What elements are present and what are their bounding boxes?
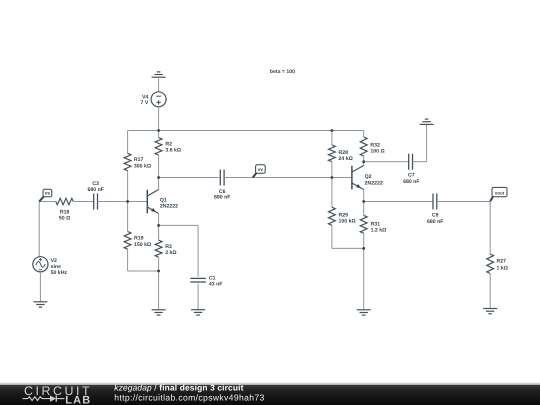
svg-text:680 nF: 680 nF [87,187,103,193]
svg-text:C7: C7 [408,173,415,179]
svg-text:R27: R27 [497,259,507,265]
svg-text:vv: vv [258,168,264,173]
svg-text:680 nF: 680 nF [427,219,443,225]
svg-text:R19: R19 [134,236,144,242]
svg-text:C9: C9 [432,213,439,219]
svg-text:2N2222: 2N2222 [160,203,178,209]
svg-text:3.6 kΩ: 3.6 kΩ [165,148,181,154]
svg-text:100 kΩ: 100 kΩ [339,219,356,225]
svg-text:R17: R17 [134,157,144,163]
svg-text:beta = 100: beta = 100 [270,69,295,75]
svg-text:V2: V2 [51,258,57,264]
svg-text:300 kΩ: 300 kΩ [134,164,151,170]
svg-text:2N2222: 2N2222 [365,180,383,186]
svg-text:kzegadap / final design 3 circ: kzegadap / final design 3 circuit [114,382,243,392]
svg-text:50 Ω: 50 Ω [59,216,70,222]
svg-text:2 kΩ: 2 kΩ [165,250,176,256]
svg-text:680 nF: 680 nF [403,179,419,185]
svg-text:R18: R18 [60,209,70,215]
svg-text:R32: R32 [370,142,380,148]
svg-text:150 kΩ: 150 kΩ [134,242,151,248]
svg-text:1.2 kΩ: 1.2 kΩ [371,228,387,234]
svg-text:R2: R2 [165,141,172,147]
svg-text:100 Ω: 100 Ω [370,149,384,155]
svg-text:R31: R31 [371,221,381,227]
svg-text:R29: R29 [339,212,349,218]
svg-text:vout: vout [495,191,505,196]
svg-text:http://circuitlab.com/cpswkv49: http://circuitlab.com/cpswkv49hah73 [114,393,264,403]
svg-text:7 V: 7 V [141,100,149,106]
svg-text:680 nF: 680 nF [214,194,230,200]
svg-text:50 kHz: 50 kHz [51,270,68,276]
svg-text:vs: vs [45,192,51,197]
svg-text:43 nF: 43 nF [209,281,223,287]
svg-text:LAB: LAB [65,394,91,405]
svg-text:24 kΩ: 24 kΩ [339,156,353,162]
svg-text:1 kΩ: 1 kΩ [497,266,508,272]
svg-text:Q2: Q2 [365,174,372,180]
